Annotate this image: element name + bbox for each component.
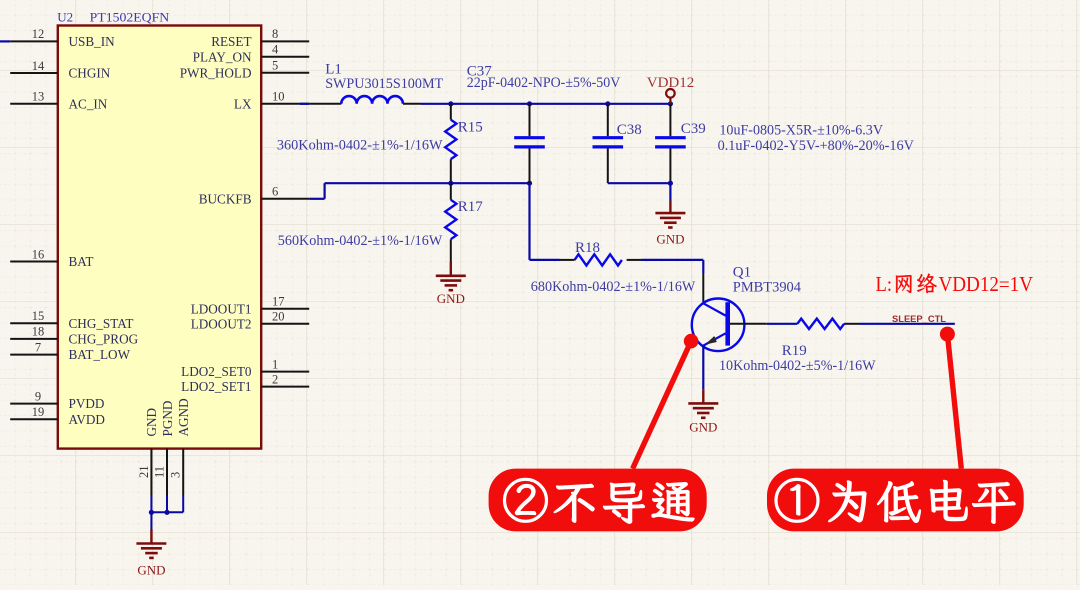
transistor Q1 emitter arrow [705, 336, 717, 345]
pin 7 BAT_LOW (left) [10, 340, 130, 362]
svg-text:13: 13 [32, 90, 45, 104]
callout box 1: 为低电平 [767, 469, 1024, 532]
wire: LX rail to VDD12 [421, 103, 670, 105]
pin 8 RESET (right) [211, 27, 309, 49]
callout 1 text 为低电平 [829, 480, 1015, 523]
value PMBT3904 [733, 280, 802, 296]
pin 9 PVDD (left) [10, 389, 104, 411]
value 360Kohm [277, 138, 443, 154]
value 680Kohm [531, 279, 696, 295]
svg-text:16: 16 [32, 247, 45, 261]
pin 4 PLAY_ON (right) [193, 43, 310, 65]
svg-text:CHG_STAT: CHG_STAT [69, 316, 134, 331]
svg-text:LX: LX [234, 96, 252, 111]
callout 2 circled number 2 [505, 479, 547, 521]
svg-text:RESET: RESET [211, 34, 251, 49]
svg-text:PWR_HOLD: PWR_HOLD [180, 65, 252, 80]
svg-text:SWPU3015S100MT: SWPU3015S100MT [325, 76, 443, 92]
capacitor C37 leads [529, 104, 531, 183]
svg-text:SLEEP_CTL: SLEEP_CTL [892, 314, 946, 325]
svg-text:PT1502EQFN: PT1502EQFN [90, 10, 170, 25]
svg-text:GND: GND [437, 291, 465, 306]
designator C39 [681, 121, 706, 137]
svg-text:5: 5 [272, 59, 278, 73]
resistor R17 body [445, 200, 456, 239]
svg-text:8: 8 [272, 27, 278, 41]
svg-text:10: 10 [272, 90, 285, 104]
pin 14 CHGIN (left) [10, 59, 111, 81]
svg-text:BAT_LOW: BAT_LOW [69, 347, 131, 362]
wire: BUCKFB pin up to feedback rail [309, 183, 529, 199]
svg-text:GND: GND [137, 563, 165, 578]
svg-text:R15: R15 [458, 120, 483, 136]
red pointer line to callout 1 [947, 334, 961, 469]
resistor R19 leads [844, 323, 859, 325]
pin 18 CHG_PROG (left) [10, 325, 138, 347]
svg-text:15: 15 [32, 309, 45, 323]
svg-text:22pF-0402-NPO-±5%-50V: 22pF-0402-NPO-±5%-50V [467, 75, 621, 91]
svg-text:VDD12: VDD12 [647, 75, 695, 91]
svg-text:7: 7 [35, 340, 41, 354]
pin 19 AVDD (left) [10, 405, 105, 427]
ground symbol below C39 [655, 201, 685, 247]
designator R17 [458, 199, 484, 215]
callout 2 text 不导通 [554, 483, 694, 524]
value 10Kohm [719, 358, 876, 374]
svg-text:19: 19 [32, 405, 45, 419]
svg-text:R18: R18 [575, 240, 600, 256]
svg-text:PVDD: PVDD [69, 396, 105, 411]
svg-text:CHGIN: CHGIN [69, 66, 111, 81]
svg-text:LDOOUT1: LDOOUT1 [191, 301, 252, 316]
svg-text:LDO2_SET0: LDO2_SET0 [181, 364, 252, 379]
power port VDD12 [666, 89, 675, 104]
wire: C38 bottom to C39 bottom [608, 182, 671, 184]
pin 11 PGND (bottom) [153, 401, 175, 496]
designator C37 [467, 64, 493, 80]
svg-text:USB_IN: USB_IN [69, 34, 116, 49]
svg-text:4: 4 [272, 43, 279, 57]
capacitor C39 plates [655, 138, 686, 147]
junction at C39 bottom [668, 181, 673, 186]
net label VDD12 [647, 75, 695, 91]
value 0.1uF-0402 (C39) [718, 138, 915, 154]
resistor R18 body [575, 254, 622, 265]
ground symbol below U2 [136, 530, 166, 578]
resistor R15 body [445, 120, 456, 159]
junction on LX rail at R15 top [448, 101, 453, 106]
part number PT1502EQFN [90, 10, 170, 25]
svg-text:6: 6 [272, 185, 278, 199]
resistor R15 leads [450, 104, 452, 183]
pin 13 AC_IN (left) [10, 90, 108, 112]
svg-text:C39: C39 [681, 121, 706, 137]
svg-text:L:: L: [876, 272, 893, 296]
red pointer dot on Q1 [684, 334, 699, 349]
svg-text:10Kohm-0402-±5%-1/16W: 10Kohm-0402-±5%-1/16W [719, 358, 876, 374]
svg-text:0.1uF-0402-Y5V-+80%-20%-16V: 0.1uF-0402-Y5V-+80%-20%-16V [718, 138, 915, 154]
transistor Q1 collector stroke [703, 303, 725, 315]
IC U2 PT1502EQFN body [58, 26, 261, 449]
pin 16 BAT (left) [10, 247, 93, 269]
pin 10 LX (right) [234, 90, 309, 112]
designator R19 [782, 343, 807, 359]
pin 20 LDOOUT2 (right) [191, 310, 310, 332]
junction at PGND/AGND join [164, 510, 169, 515]
inductor L1 leads [309, 103, 421, 105]
svg-text:12: 12 [32, 27, 45, 41]
svg-text:BAT: BAT [69, 254, 94, 269]
pin 6 BUCKFB (right) [199, 185, 309, 207]
wire: feedback node down and right to R18 [530, 183, 560, 260]
capacitor C37 plates [514, 138, 545, 147]
wire: Q1 base to R19 [767, 323, 798, 325]
wire into pin 12 (USB_IN) from sheet edge [0, 40, 10, 42]
svg-text:AVDD: AVDD [69, 412, 105, 427]
capacitor C39 leads [669, 104, 671, 183]
junction on LX rail at C37 top [527, 101, 532, 106]
transistor Q1 base bar [725, 302, 730, 345]
svg-text:18: 18 [32, 325, 45, 339]
junction on LX rail at C39/VDD12 [668, 101, 673, 106]
pin 17 LDOOUT1 (right) [191, 295, 310, 317]
value 22pF [467, 75, 621, 91]
svg-text:21: 21 [137, 466, 151, 479]
ground symbol below Q1 [688, 389, 718, 434]
svg-text:LDOOUT2: LDOOUT2 [191, 316, 252, 331]
pin 5 PWR_HOLD (right) [180, 59, 310, 81]
svg-text:R19: R19 [782, 343, 807, 359]
pin 2 LDO2_SET1 (right) [181, 372, 309, 394]
capacitor C38 leads [607, 104, 609, 183]
svg-text:AGND: AGND [176, 398, 191, 436]
svg-text:360Kohm-0402-±1%-1/16W: 360Kohm-0402-±1%-1/16W [277, 138, 443, 154]
svg-text:GND: GND [656, 232, 684, 247]
svg-text:PLAY_ON: PLAY_ON [193, 49, 252, 64]
svg-text:17: 17 [272, 295, 285, 309]
pin 21 GND (bottom) [137, 408, 159, 496]
svg-text:LDO2_SET1: LDO2_SET1 [181, 379, 251, 394]
svg-text:PMBT3904: PMBT3904 [733, 280, 802, 296]
svg-text:560Kohm-0402-±1%-1/16W: 560Kohm-0402-±1%-1/16W [278, 233, 443, 249]
junction at GND/PGND join [149, 510, 154, 515]
wire: bottom GND pins join [151, 496, 183, 530]
wire: R18 to Q1 collector [642, 260, 704, 273]
designator R18 [575, 240, 600, 256]
svg-text:U2: U2 [57, 10, 73, 25]
resistor R17 leads [450, 183, 452, 261]
value 560Kohm [278, 233, 443, 249]
junction at C37 bottom / feedback rail [527, 181, 532, 186]
svg-text:GND: GND [144, 408, 159, 437]
svg-text:680Kohm-0402-±1%-1/16W: 680Kohm-0402-±1%-1/16W [531, 279, 696, 295]
net label SLEEP_CTL [892, 314, 946, 325]
svg-text:20: 20 [272, 310, 285, 324]
transistor Q1 PMBT3904 body circle [692, 299, 745, 352]
svg-text:VDD12=1V: VDD12=1V [939, 272, 1034, 296]
wire: C39 bottom to ground [669, 183, 671, 200]
svg-text:GND: GND [689, 420, 717, 435]
designator Q1 [733, 265, 751, 281]
junction at R15 bottom / feedback rail [448, 181, 453, 186]
svg-text:BUCKFB: BUCKFB [199, 191, 252, 206]
pin 15 CHG_STAT (left) [10, 309, 133, 331]
svg-text:1: 1 [272, 357, 278, 371]
Q1 base lead [730, 323, 767, 325]
svg-text:Q1: Q1 [733, 265, 751, 281]
svg-text:CHG_PROG: CHG_PROG [69, 332, 139, 347]
pin 3 AGND (bottom) [169, 398, 191, 495]
Q1 collector lead [702, 273, 704, 303]
callout box 2: 不导通 [489, 469, 707, 532]
inductor L1 coil [341, 96, 403, 104]
designator C38 [617, 122, 642, 138]
designator R15 [458, 120, 483, 136]
resistor R19 body [797, 319, 844, 329]
transistor Q1 emitter stroke [703, 333, 725, 345]
resistor R18 leads [560, 259, 642, 261]
designator U2 [57, 10, 73, 25]
red pointer dot on SLEEP_CTL [940, 327, 955, 342]
svg-text:2: 2 [272, 372, 278, 386]
wire: LX pin to inductor [300, 103, 309, 105]
pin 12 USB_IN (left) [10, 27, 115, 49]
callout 1 circled number 1 [776, 479, 818, 521]
svg-text:10uF-0805-X5R-±10%-6.3V: 10uF-0805-X5R-±10%-6.3V [719, 123, 883, 139]
svg-text:AC_IN: AC_IN [69, 96, 108, 111]
wire: Q1 emitter to ground [702, 346, 704, 390]
svg-text:11: 11 [153, 466, 167, 478]
red annotation: L:网络VDD12=1V [876, 272, 1034, 296]
ground symbol below R17 [436, 262, 466, 307]
pin 1 LDO2_SET0 (right) [181, 357, 309, 379]
red pointer line to callout 2 [633, 341, 692, 469]
junction on LX rail at C38 top [605, 101, 610, 106]
svg-text:R17: R17 [458, 199, 484, 215]
wire: R19 to SLEEP_CTL [860, 323, 955, 325]
svg-text:14: 14 [32, 59, 45, 73]
svg-text:C38: C38 [617, 122, 642, 138]
designator L1 [325, 62, 342, 78]
svg-text:3: 3 [169, 472, 183, 478]
svg-text:PGND: PGND [160, 401, 175, 437]
svg-text:9: 9 [35, 389, 41, 403]
value SWPU3015S100MT [325, 76, 443, 92]
capacitor C38 plates [593, 138, 624, 147]
value 10uF-0805 (C38) [719, 123, 883, 139]
